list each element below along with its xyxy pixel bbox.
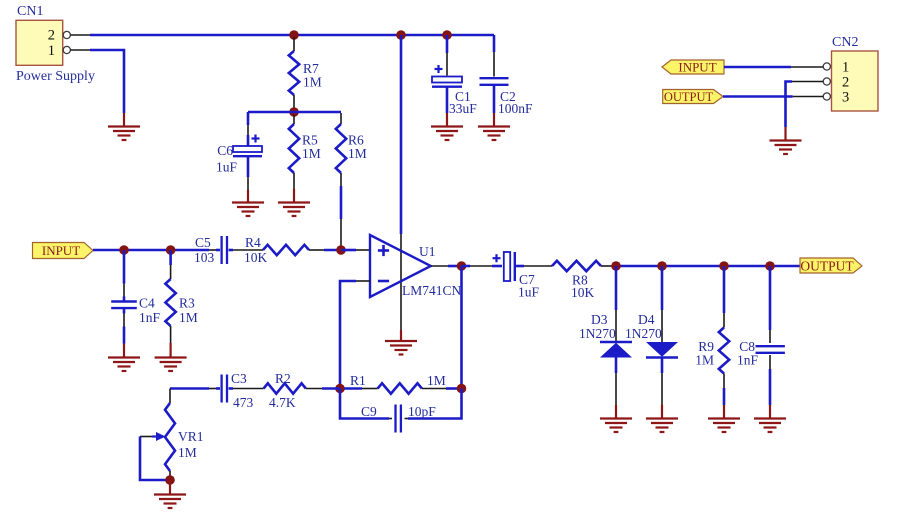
wire CN1 pin1 to ground <box>90 50 124 127</box>
node minus R1 <box>335 384 345 394</box>
svg-text:1M: 1M <box>303 75 322 90</box>
svg-text:C4: C4 <box>139 296 155 311</box>
resistor R5 <box>289 115 321 203</box>
svg-text:1nF: 1nF <box>139 310 161 325</box>
wire CN2 pin2 to ground <box>786 82 824 141</box>
node D3 <box>611 261 621 271</box>
svg-text:1M: 1M <box>695 353 714 368</box>
flag OUTPUT <box>800 258 862 274</box>
node R1 right <box>457 384 467 394</box>
svg-text:U1: U1 <box>419 244 436 259</box>
resistor R2 <box>264 371 340 410</box>
svg-text:C9: C9 <box>361 404 377 419</box>
ground R3 <box>155 358 187 372</box>
svg-text:OUTPUT: OUTPUT <box>664 90 714 104</box>
node rail C1 <box>442 30 452 40</box>
wire output row <box>613 265 800 268</box>
svg-text:D4: D4 <box>638 312 655 327</box>
node C8 <box>765 261 775 271</box>
node output <box>457 261 467 271</box>
svg-text:OUTPUT: OUTPUT <box>800 259 854 274</box>
node input C4 <box>119 245 129 255</box>
svg-text:103: 103 <box>194 250 215 265</box>
svg-text:1M: 1M <box>179 310 198 325</box>
ground C4 <box>108 358 140 372</box>
svg-text:R2: R2 <box>275 371 291 386</box>
svg-text:2: 2 <box>48 28 55 44</box>
ground CN2 <box>770 141 802 155</box>
svg-text:33uF: 33uF <box>449 101 477 116</box>
wire OUTPUT to CN2 pin3 <box>723 95 823 98</box>
svg-text:473: 473 <box>233 395 254 410</box>
svg-text:1N270: 1N270 <box>579 326 616 341</box>
node rail opamp <box>396 30 406 40</box>
ground VR1 <box>154 495 186 509</box>
wire R6 down <box>340 186 343 246</box>
capacitor C4 <box>111 250 160 358</box>
wire INPUT to CN2 pin1 <box>724 66 823 69</box>
capacitor C6 <box>216 112 262 203</box>
ground D4 <box>646 419 678 433</box>
ground opamp <box>385 341 417 355</box>
op-amp U1 <box>370 235 462 298</box>
node R7 bottom <box>289 107 299 117</box>
svg-text:3: 3 <box>842 90 849 106</box>
resistor R6 <box>336 113 367 186</box>
wire opamp output <box>431 265 462 267</box>
svg-text:C5: C5 <box>195 235 211 250</box>
resistor R9 <box>695 266 729 419</box>
wire output down <box>460 266 463 389</box>
node input R3 <box>166 245 176 255</box>
svg-text:1M: 1M <box>348 146 367 161</box>
node rail R7 <box>289 30 299 40</box>
capacitor C3 <box>170 371 264 410</box>
svg-text:10K: 10K <box>571 285 595 300</box>
connector CN1 <box>16 4 95 84</box>
wire opamp V+ <box>400 35 403 341</box>
CN1 pin 2 stub <box>70 34 90 36</box>
ground D3 <box>600 419 632 433</box>
svg-text:1: 1 <box>48 43 55 59</box>
svg-text:1M: 1M <box>427 373 446 388</box>
svg-text:1: 1 <box>842 60 849 76</box>
CN1 pin 1 stub <box>70 49 90 51</box>
resistor R4 <box>244 235 324 265</box>
ground C8 <box>754 419 786 433</box>
svg-text:CN2: CN2 <box>832 35 858 50</box>
ground R5 <box>278 203 310 217</box>
ground CN1 <box>108 127 140 141</box>
svg-text:VR1: VR1 <box>178 429 204 444</box>
wire input row <box>93 249 209 252</box>
capacitor C7 <box>462 252 553 300</box>
resistor R3 <box>165 250 197 358</box>
diode D3 <box>579 266 632 419</box>
capacitor C8 <box>737 266 785 419</box>
capacitor C9 <box>340 389 462 433</box>
svg-text:100nF: 100nF <box>498 101 533 116</box>
ground C1 <box>431 127 463 141</box>
capacitor C1 <box>432 35 477 127</box>
node D4 <box>657 261 667 271</box>
node VR1 wiper <box>165 475 175 485</box>
svg-text:1M: 1M <box>178 445 197 460</box>
capacitor C2 <box>480 35 534 127</box>
svg-text:R3: R3 <box>179 296 195 311</box>
svg-text:10K: 10K <box>244 250 268 265</box>
svg-text:D3: D3 <box>591 312 608 327</box>
svg-text:4.7K: 4.7K <box>269 395 296 410</box>
flag INPUT CN2 <box>662 60 724 75</box>
flag OUTPUT CN2 <box>663 90 723 105</box>
svg-text:R1: R1 <box>350 373 366 388</box>
wire node to opamp+ <box>341 249 370 252</box>
flag INPUT <box>33 243 94 259</box>
wire mid rail <box>248 111 341 114</box>
diode D4 <box>625 266 678 419</box>
node plus input <box>336 245 346 255</box>
wire R4 to node <box>324 249 341 252</box>
svg-text:INPUT: INPUT <box>42 243 80 258</box>
wire top rail <box>90 34 494 37</box>
svg-text:1nF: 1nF <box>737 353 759 368</box>
svg-text:LM741CN: LM741CN <box>402 283 462 298</box>
svg-text:R4: R4 <box>245 235 261 250</box>
wire minus input <box>340 281 370 389</box>
resistor R1 <box>344 373 462 394</box>
potentiometer VR1 <box>140 389 204 481</box>
svg-text:1N270: 1N270 <box>625 326 662 341</box>
svg-text:2: 2 <box>842 75 849 91</box>
svg-text:10pF: 10pF <box>408 404 436 419</box>
node R9 <box>719 261 729 271</box>
svg-text:1uF: 1uF <box>518 285 540 300</box>
svg-text:C3: C3 <box>231 371 247 386</box>
svg-text:1uF: 1uF <box>216 160 238 175</box>
resistor R8 <box>552 261 613 300</box>
svg-text:C6: C6 <box>217 143 233 158</box>
capacitor C5 <box>194 235 263 265</box>
svg-text:CN1: CN1 <box>17 4 43 19</box>
wire VR1 to ground <box>169 480 171 495</box>
ground C2 <box>478 127 510 141</box>
ground R9 <box>708 419 740 433</box>
connector CN2 <box>823 35 878 111</box>
svg-text:1M: 1M <box>302 146 321 161</box>
resistor R7 <box>289 37 322 109</box>
svg-text:Power Supply: Power Supply <box>16 69 95 84</box>
ground C6 <box>232 203 264 217</box>
svg-text:INPUT: INPUT <box>678 60 716 75</box>
